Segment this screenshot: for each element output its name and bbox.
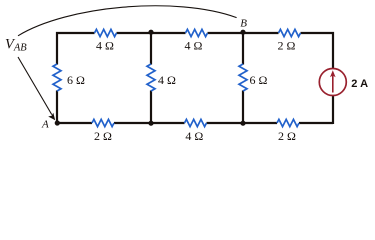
wire middle-right vertical lower stub [242, 91, 244, 125]
svg-text:4 Ω: 4 Ω [185, 39, 203, 53]
node A junction dot [55, 120, 60, 125]
annotation arrow from VAB to node A [18, 57, 52, 115]
annotation curve from VAB to node B [18, 6, 237, 36]
resistor 4ohm bottom-middle zigzag [185, 119, 207, 126]
wire right vertical below current source [332, 95, 334, 125]
resistor 4ohm middle-left vertical zigzag [147, 64, 155, 91]
svg-text:2 Ω: 2 Ω [278, 129, 296, 143]
node junction bottom-middle-left [148, 121, 153, 126]
wire middle-left vertical lower stub [150, 91, 152, 125]
svg-text:6 Ω: 6 Ω [250, 73, 268, 87]
svg-text:B: B [240, 17, 247, 29]
resistor 2ohm bottom-left zigzag [92, 119, 114, 126]
node junction top-middle-left [148, 30, 153, 35]
wire bottom rail [57, 122, 333, 124]
resistor 2ohm bottom-right zigzag [277, 119, 299, 126]
svg-text:4 Ω: 4 Ω [185, 129, 203, 143]
wire middle-left vertical upper stub [150, 32, 152, 65]
resistor 2ohm top-right zigzag [279, 29, 301, 36]
svg-text:A: A [41, 119, 49, 131]
wire top segment right of 2ohm to corner [301, 33, 334, 70]
svg-text:6 Ω: 6 Ω [67, 73, 85, 87]
wire top segment left (corner to R 4ohm) [57, 33, 95, 65]
resistor 4ohm top-middle zigzag [186, 29, 208, 36]
resistor 6ohm left vertical zigzag [53, 64, 61, 91]
node B junction dot [240, 30, 245, 35]
wire top segment between second resistor and node B [208, 32, 279, 34]
current source I1 circle [319, 69, 346, 96]
wire left vertical lower [56, 91, 58, 125]
svg-text:4 Ω: 4 Ω [96, 39, 114, 53]
wire top segment between first and second resistor [117, 32, 186, 34]
svg-text:2 A: 2 A [351, 78, 368, 90]
current source arrow [332, 75, 334, 93]
svg-text:VAB: VAB [5, 36, 27, 53]
svg-text:2 Ω: 2 Ω [94, 129, 112, 143]
resistor 6ohm middle-right vertical zigzag [239, 64, 247, 91]
svg-text:2 Ω: 2 Ω [278, 39, 296, 53]
resistor 4ohm top-left zigzag [95, 29, 117, 36]
node junction bottom-middle-right [240, 121, 245, 126]
wire middle-right vertical upper stub [242, 32, 244, 65]
svg-text:4 Ω: 4 Ω [158, 73, 176, 87]
